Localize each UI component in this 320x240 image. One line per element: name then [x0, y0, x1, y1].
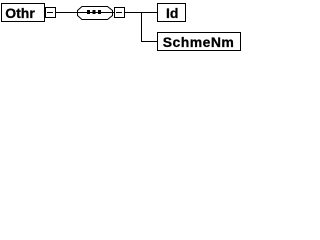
svg-text:Id: Id: [166, 5, 178, 21]
svg-text:SchmeNm: SchmeNm: [163, 34, 235, 50]
svg-text:Othr: Othr: [5, 5, 35, 21]
